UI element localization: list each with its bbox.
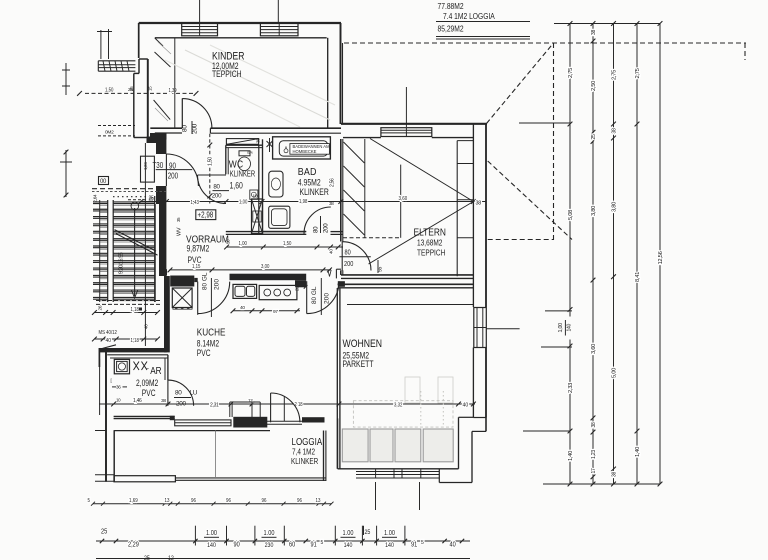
dim 1,18b	[94, 338, 158, 340]
node ghost-furniture	[405, 377, 420, 403]
svg-text:200: 200	[323, 223, 330, 233]
svg-text:25: 25	[365, 530, 371, 537]
wall eltern-right	[472, 124, 474, 307]
svg-text:80: 80	[182, 125, 189, 132]
wire	[400, 165, 402, 238]
svg-text:1,18: 1,18	[131, 337, 140, 344]
dim kueche-small	[233, 310, 300, 312]
door wohnen leaf+arc	[306, 281, 308, 313]
svg-text:80 GL: 80 GL	[202, 272, 209, 290]
dim 1,50	[85, 92, 196, 94]
svg-text:1,43: 1,43	[191, 199, 200, 206]
wire	[486, 328, 520, 330]
svg-text:~: ~	[146, 367, 149, 373]
svg-text:00: 00	[100, 179, 107, 185]
svg-text:96: 96	[226, 497, 231, 504]
wall terrace-right	[458, 417, 460, 469]
node ms-wall	[99, 348, 166, 352]
svg-text:38: 38	[256, 138, 261, 143]
svg-text:1,98: 1,98	[299, 198, 308, 205]
svg-text:1,60: 1,60	[230, 181, 244, 191]
svg-text:0M2: 0M2	[105, 130, 114, 136]
svg-text:2,75: 2,75	[635, 68, 641, 78]
wall stair-right	[159, 204, 166, 276]
node shaft-box	[252, 199, 263, 234]
wire	[96, 300, 160, 302]
svg-text:LOGGIA: LOGGIA	[292, 436, 324, 447]
wall wc-bottom	[226, 231, 306, 233]
svg-text:3,60: 3,60	[399, 195, 408, 202]
wire	[277, 0, 279, 22]
dim 1,50v	[209, 134, 211, 204]
wire	[98, 135, 135, 137]
svg-text:38: 38	[591, 422, 597, 427]
svg-text:60: 60	[289, 541, 296, 549]
fixture shower	[269, 206, 290, 228]
svg-text:1,39: 1,39	[169, 88, 177, 94]
svg-text:13: 13	[316, 497, 321, 504]
svg-text:1.00: 1.00	[343, 529, 354, 537]
node ledge	[98, 60, 135, 62]
wall vorraum-left-upper	[156, 140, 166, 155]
fixture sink	[233, 284, 257, 298]
wire	[128, 199, 146, 201]
window south-A	[175, 420, 231, 426]
window south-B	[267, 420, 302, 422]
door entrance arc	[166, 154, 198, 186]
wall wc-right	[258, 145, 260, 234]
door wc arc	[198, 175, 227, 204]
wall kinder-bottom-left	[150, 127, 182, 129]
svg-text:2,75: 2,75	[568, 68, 574, 78]
wall wc-top	[226, 144, 262, 146]
svg-text:38: 38	[612, 472, 618, 477]
wire	[436, 36, 530, 38]
wall wohnen-right-lower	[472, 348, 474, 418]
window kinder W2	[260, 23, 298, 36]
door kinder leaf	[181, 98, 183, 128]
svg-text:3,32: 3,32	[394, 402, 403, 409]
svg-text:140: 140	[385, 543, 394, 550]
node kueche-bay	[229, 402, 231, 417]
svg-text:5: 5	[321, 540, 324, 546]
svg-text:91: 91	[311, 541, 318, 549]
wall wc-left	[225, 145, 227, 174]
wall bad-bottom	[263, 231, 307, 233]
wall eltern-left	[340, 139, 342, 242]
svg-text:140: 140	[207, 543, 216, 550]
svg-text:13: 13	[165, 497, 170, 504]
svg-text:2,64: 2,64	[93, 194, 98, 202]
svg-text:25: 25	[149, 197, 154, 203]
node slope-line-upper	[370, 139, 473, 202]
svg-text:91: 91	[411, 541, 418, 549]
svg-text:1,50: 1,50	[283, 241, 292, 248]
svg-text:SPI: SPI	[247, 151, 252, 155]
dim ar-small	[99, 403, 168, 405]
window wohnen-right	[474, 308, 487, 348]
svg-text:40: 40	[240, 305, 245, 311]
svg-text:PVC: PVC	[142, 388, 156, 398]
svg-text:140: 140	[344, 543, 353, 550]
wall corridor-bottom-1	[170, 276, 194, 287]
dim chain main-horizontal	[140, 201, 486, 203]
node slope-line-lower	[369, 202, 474, 265]
svg-text:WOHNEN: WOHNEN	[343, 338, 383, 350]
svg-text:38: 38	[612, 128, 618, 134]
fixture basin	[269, 171, 283, 197]
svg-text:2,75: 2,75	[612, 70, 618, 80]
dim chain rowA	[93, 503, 332, 505]
svg-text:2,09M2: 2,09M2	[136, 378, 158, 388]
svg-text:40: 40	[450, 541, 457, 549]
wire	[199, 0, 201, 22]
svg-text:1,40: 1,40	[568, 451, 574, 461]
node kueche-shaft	[172, 288, 192, 308]
svg-text:1,00: 1,00	[558, 323, 564, 333]
svg-text:230: 230	[265, 543, 274, 550]
node tub-label	[290, 144, 330, 155]
svg-text:1,50: 1,50	[207, 157, 213, 166]
node wardrobe	[174, 38, 176, 128]
wire	[545, 310, 572, 312]
svg-text:2,33: 2,33	[568, 383, 574, 393]
svg-text:PARKETT: PARKETT	[343, 359, 374, 369]
svg-text:200: 200	[168, 172, 178, 181]
wire	[519, 122, 570, 124]
wall pier-2	[233, 417, 267, 428]
svg-text:96: 96	[191, 497, 196, 504]
dim chain rowB	[96, 540, 470, 542]
wire	[215, 430, 217, 477]
svg-text:77.88M2: 77.88M2	[438, 1, 464, 11]
svg-text:WV: WV	[177, 227, 183, 236]
window kinder W1	[182, 23, 218, 36]
svg-text:1,00: 1,00	[239, 241, 248, 248]
svg-text:200: 200	[323, 293, 330, 304]
wall loggia-right	[323, 431, 325, 482]
svg-text:80: 80	[213, 184, 220, 191]
wire	[155, 37, 327, 39]
wall left-upper	[147, 59, 149, 138]
svg-text:200: 200	[213, 279, 220, 290]
svg-text:1,00: 1,00	[239, 199, 248, 206]
svg-text:1,69: 1,69	[129, 497, 138, 504]
svg-text:KLINKER: KLINKER	[230, 171, 255, 179]
svg-text:LU: LU	[190, 390, 198, 397]
dim chain v3	[613, 24, 615, 485]
wire	[98, 125, 135, 127]
node ar-hatch	[134, 362, 140, 371]
svg-text:140: 140	[567, 324, 573, 332]
svg-text:7.4 1M2 LOGGIA: 7.4 1M2 LOGGIA	[443, 11, 496, 21]
dim chain corridor	[227, 246, 343, 248]
wall vorraum-left-lower	[156, 186, 166, 204]
svg-text:3,80: 3,80	[591, 206, 597, 216]
wire	[488, 239, 554, 241]
wire	[100, 30, 102, 59]
svg-text:2,56: 2,56	[330, 178, 336, 187]
dim chain v4	[636, 24, 638, 485]
dim chain lower	[110, 403, 475, 405]
node terrace-railing	[356, 471, 440, 473]
wall terrace-bottom	[338, 468, 459, 470]
svg-text:2,29: 2,29	[128, 541, 139, 549]
svg-text:96: 96	[297, 497, 302, 504]
door kueche leaf+arc	[197, 282, 199, 315]
svg-text:8,41: 8,41	[635, 272, 641, 282]
wall terrace-left	[337, 418, 339, 468]
door kinder arc	[182, 99, 212, 129]
svg-text:96: 96	[262, 497, 267, 504]
node tiles	[342, 429, 368, 462]
node eltern-closet	[456, 141, 458, 277]
dim cap-bottom	[543, 483, 660, 485]
wire	[553, 43, 555, 240]
wall kinder-right	[327, 38, 329, 129]
wall kueche-wohnen	[336, 288, 338, 469]
wall kinder-bottom-right	[210, 127, 341, 129]
fixture bathtub	[273, 137, 331, 159]
svg-text:38: 38	[476, 201, 482, 207]
wire	[436, 38, 530, 40]
door eltern arc	[342, 242, 371, 271]
svg-text:200: 200	[344, 260, 354, 268]
node duct-hatch	[226, 139, 258, 145]
svg-text:12,56: 12,56	[658, 251, 664, 264]
door bad arc	[304, 207, 331, 234]
svg-text:KLINKER: KLINKER	[291, 456, 319, 466]
dim 1,18a	[94, 312, 158, 314]
dim chain corridor2	[169, 269, 331, 271]
svg-text:1,18: 1,18	[131, 307, 140, 314]
wall pier-3	[302, 417, 325, 422]
svg-text:38: 38	[161, 398, 166, 404]
svg-text:25: 25	[591, 134, 597, 140]
dim chain v5	[659, 24, 661, 485]
svg-text:1,46: 1,46	[133, 398, 142, 404]
wall wohnen-top	[338, 283, 474, 285]
wire	[405, 87, 407, 127]
svg-text:PVC: PVC	[197, 348, 211, 358]
svg-text:38: 38	[591, 30, 597, 36]
node terrace-outline	[473, 417, 486, 419]
svg-text:12: 12	[168, 555, 174, 560]
wire	[488, 161, 572, 240]
svg-text:MS 40/12: MS 40/12	[99, 330, 118, 337]
svg-text:40: 40	[463, 402, 469, 408]
fixture stove	[259, 285, 297, 299]
stairs treads	[93, 201, 155, 203]
svg-text:5: 5	[421, 540, 424, 546]
svg-text:KUCHE: KUCHE	[197, 325, 226, 337]
wire	[138, 23, 140, 58]
svg-text:5: 5	[88, 497, 91, 504]
wall pier-1	[170, 416, 175, 420]
svg-text:TEPPICH: TEPPICH	[417, 247, 445, 257]
wire	[419, 482, 421, 510]
svg-text:200: 200	[192, 123, 199, 134]
svg-text:+2,98: +2,98	[198, 212, 214, 220]
svg-text:80 GL: 80 GL	[311, 286, 318, 304]
wire	[523, 430, 570, 432]
wire	[375, 482, 377, 510]
node kinder-ghost	[185, 50, 330, 120]
svg-text:2,50: 2,50	[591, 81, 597, 91]
svg-text:2,31: 2,31	[210, 403, 219, 409]
svg-text:HOMBECKE: HOMBECKE	[293, 149, 317, 154]
door ar leaf+arc	[167, 380, 169, 406]
wire	[541, 346, 572, 348]
svg-text:9,87M2: 9,87M2	[187, 243, 210, 253]
svg-text:7,4 1M2: 7,4 1M2	[292, 446, 315, 456]
wall eltern-top	[341, 123, 487, 125]
wire	[92, 188, 166, 190]
svg-text:10: 10	[253, 194, 258, 200]
svg-text:9:20/16:55: 9:20/16:55	[119, 252, 125, 274]
wire	[436, 21, 530, 23]
node box-00	[99, 177, 109, 185]
svg-text:25: 25	[101, 528, 108, 536]
svg-text:1,23: 1,23	[591, 450, 597, 459]
node ledge-hatch	[103, 61, 105, 71]
wire	[139, 22, 341, 24]
svg-text:3,60: 3,60	[591, 344, 597, 354]
wire	[744, 43, 746, 60]
wall corridor-bottom-2	[230, 274, 307, 281]
dim 1,00/140@v1	[567, 317, 574, 340]
svg-text:1.00: 1.00	[384, 529, 395, 537]
svg-text:25: 25	[128, 87, 134, 92]
svg-text:TEPPICH: TEPPICH	[212, 69, 242, 79]
wall corridor-bottom-3	[338, 281, 345, 287]
node closet-strip	[364, 139, 366, 238]
wall ar	[105, 350, 107, 482]
svg-text:85,29M2: 85,29M2	[438, 23, 464, 33]
svg-text:KLINKER: KLINKER	[300, 187, 330, 197]
svg-text:1,50: 1,50	[105, 87, 114, 94]
node left-marks	[65, 63, 67, 95]
svg-text:80: 80	[313, 226, 320, 233]
svg-text:AR: AR	[150, 365, 162, 376]
svg-text:1,15: 1,15	[192, 263, 201, 270]
node loggia-railing	[114, 476, 175, 482]
node corner-diagonal	[155, 38, 163, 46]
node left-marks2	[65, 150, 67, 197]
svg-text:1.00: 1.00	[206, 529, 217, 537]
svg-text:26: 26	[98, 305, 104, 310]
stairs arrow	[134, 208, 136, 296]
svg-text:200: 200	[212, 193, 222, 200]
svg-text:5,00: 5,00	[612, 368, 618, 378]
svg-text:90: 90	[234, 541, 241, 549]
dim chain v1	[569, 24, 571, 485]
svg-text:80: 80	[175, 390, 182, 397]
fixture toilet	[238, 157, 250, 171]
svg-text:17: 17	[591, 468, 597, 473]
svg-text:WC: WC	[229, 159, 244, 170]
svg-text:40: 40	[106, 338, 112, 344]
wire	[487, 43, 554, 124]
svg-text:3,80: 3,80	[612, 202, 618, 212]
svg-text:25: 25	[144, 555, 150, 560]
svg-text:1.00: 1.00	[264, 529, 275, 537]
wall south-1	[114, 416, 175, 418]
dim chain v2	[592, 24, 594, 485]
node tile-ghost	[353, 401, 453, 427]
svg-text:97: 97	[273, 309, 278, 315]
wire	[343, 237, 401, 239]
wire	[344, 42, 746, 44]
svg-text:40: 40	[329, 249, 335, 254]
dim cap-top	[554, 23, 660, 25]
wall eltern-bottom	[341, 274, 473, 276]
svg-text:5,08: 5,08	[568, 210, 574, 220]
svg-text:80: 80	[345, 249, 352, 257]
node panel-box	[141, 156, 155, 182]
svg-text:36: 36	[116, 385, 121, 390]
door entrance leaf	[165, 154, 167, 186]
wall loggia-left	[113, 430, 115, 482]
node level-box	[196, 210, 216, 220]
svg-text:1,40: 1,40	[635, 447, 641, 457]
fixture washer	[114, 359, 129, 373]
stairs break-line	[115, 230, 157, 252]
wire	[347, 304, 473, 306]
svg-text:3,00: 3,00	[261, 263, 270, 270]
svg-text:BAD: BAD	[298, 166, 317, 178]
window eltern	[381, 128, 432, 137]
door loggia arc	[270, 393, 272, 422]
